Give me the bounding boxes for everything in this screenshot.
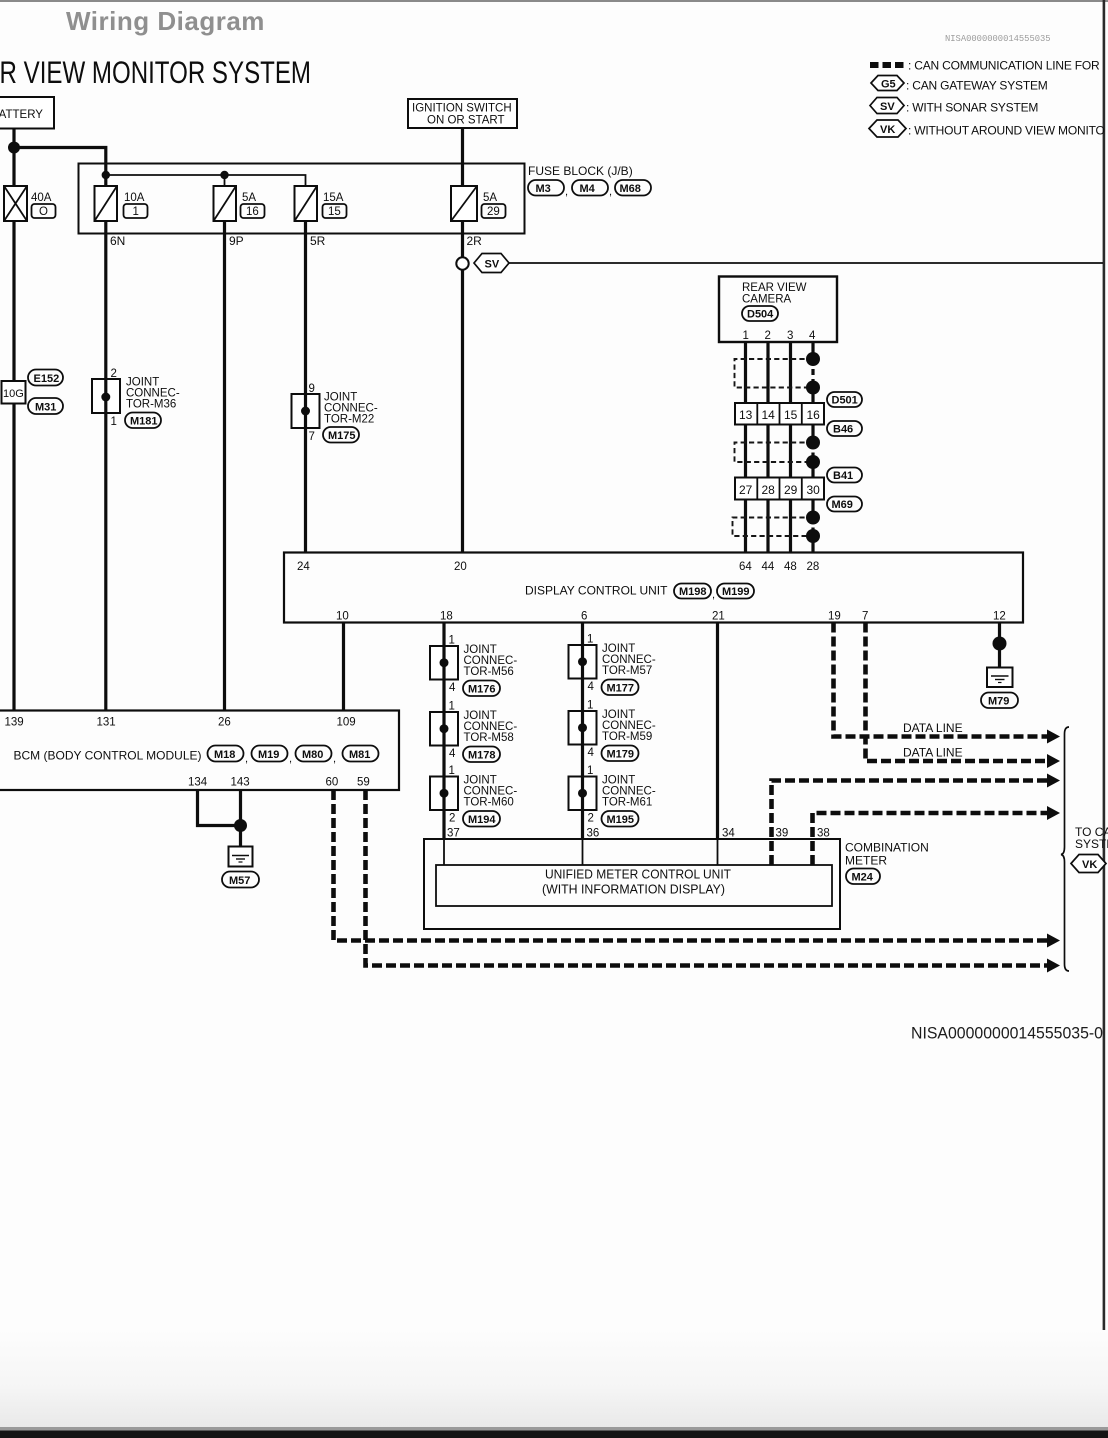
svg-text:G5: G5 (881, 79, 896, 91)
wire SV line right (509, 262, 1103, 264)
connector M18 (208, 746, 244, 762)
svg-text:1: 1 (587, 765, 593, 777)
svg-text:44: 44 (762, 561, 775, 573)
ground M57 (229, 847, 253, 867)
svg-text:B46: B46 (833, 424, 853, 436)
fuse 5A 29 (451, 186, 506, 221)
connector D501 (827, 392, 862, 407)
connector B46 (827, 421, 862, 436)
svg-text:TOR-M61: TOR-M61 (602, 797, 652, 809)
ground M79 (987, 668, 1013, 688)
svg-text:TOR-M56: TOR-M56 (464, 666, 514, 678)
svg-text:4: 4 (809, 330, 816, 342)
wire camera pin2 (766, 342, 769, 553)
wire BCM143 to ground (239, 790, 242, 847)
node shield1 top dot (806, 352, 820, 366)
svg-text:M31: M31 (35, 402, 56, 414)
svg-text:M179: M179 (607, 749, 635, 761)
bottom gray line (0, 1427, 1108, 1431)
shield box 1 (735, 359, 814, 388)
connector M19 (252, 746, 288, 762)
svg-text:36: 36 (587, 828, 600, 840)
svg-text:1: 1 (133, 206, 139, 218)
svg-text:M81: M81 (349, 749, 370, 761)
joint connector M56 (430, 646, 458, 680)
wire fuse29 down to splice (461, 221, 464, 258)
svg-text:29: 29 (487, 206, 500, 218)
svg-text:10G: 10G (3, 388, 24, 400)
node dot 134/143 junction (234, 819, 247, 832)
svg-text:M194: M194 (468, 814, 496, 826)
svg-text:143: 143 (231, 777, 250, 789)
svg-text:12: 12 (993, 611, 1006, 623)
bottom black band (0, 1431, 1108, 1438)
svg-text:D501: D501 (832, 395, 858, 407)
connector M24 (846, 869, 880, 885)
svg-text:3: 3 (787, 330, 793, 342)
connector M176 (463, 681, 500, 697)
svg-text:REAR VIEW: REAR VIEW (742, 282, 807, 294)
svg-text:M3: M3 (536, 183, 551, 195)
svg-text:7: 7 (309, 431, 315, 443)
svg-text:29: 29 (784, 483, 798, 497)
node shield2 top dot (806, 436, 820, 450)
connector M195 (602, 811, 639, 827)
svg-text:2: 2 (111, 368, 117, 380)
connector M198 (674, 584, 711, 599)
svg-text:9: 9 (309, 383, 315, 395)
wire meter 36 stub (582, 840, 584, 865)
connector M57 (222, 872, 259, 888)
fuse 10A 1 (95, 186, 148, 221)
svg-text:IGNITION SWITCH: IGNITION SWITCH (412, 103, 512, 115)
svg-text:M79: M79 (988, 696, 1009, 708)
svg-text:D504: D504 (747, 309, 774, 321)
svg-text:1: 1 (449, 701, 455, 713)
svg-text:M199: M199 (722, 586, 750, 598)
svg-text:M176: M176 (468, 684, 496, 696)
joint connector M57 (569, 645, 597, 679)
svg-text:METER: METER (845, 854, 887, 868)
svg-text:134: 134 (188, 777, 208, 789)
svg-text:18: 18 (440, 611, 453, 623)
connector M31 (28, 398, 63, 414)
wire DCU6 chain (581, 623, 584, 646)
svg-text:39: 39 (776, 828, 789, 840)
svg-text:7: 7 (862, 611, 868, 623)
connector 10G (2, 381, 26, 404)
svg-text:37: 37 (447, 828, 460, 840)
svg-text:M24: M24 (852, 872, 874, 884)
svg-text:34: 34 (722, 828, 735, 840)
connector B41 (827, 468, 862, 483)
svg-text:VK: VK (1082, 859, 1097, 871)
wire fuse bus (106, 175, 306, 186)
svg-text:SV: SV (485, 259, 500, 271)
svg-text:: CAN COMMUNICATION LINE FOR: : CAN COMMUNICATION LINE FOR (908, 59, 1100, 73)
svg-text:14: 14 (762, 408, 776, 422)
svg-text:FUSE BLOCK (J/B): FUSE BLOCK (J/B) (528, 164, 633, 178)
svg-text:SYSTEM: SYSTEM (1075, 837, 1108, 851)
connector M175 (323, 427, 359, 443)
svg-text:15A: 15A (323, 192, 344, 204)
svg-text:131: 131 (97, 717, 116, 729)
joint connector M58 (430, 712, 458, 746)
svg-text:10: 10 (336, 611, 349, 623)
svg-text:4: 4 (588, 747, 595, 759)
wire DCU18 chain (442, 623, 445, 647)
node shield3 top dot (806, 511, 820, 525)
joint connector M61 (569, 777, 597, 811)
ignition switch box (408, 99, 517, 128)
legend hexagon G5 (871, 76, 904, 91)
wire ignition down (461, 128, 464, 186)
svg-text:16: 16 (807, 408, 821, 422)
wire fuse16 to BCM 26 (223, 221, 226, 711)
svg-text:,: , (289, 753, 292, 765)
connector row 13-16 (735, 403, 824, 425)
svg-text:,: , (245, 753, 248, 765)
svg-text:: CAN GATEWAY SYSTEM: : CAN GATEWAY SYSTEM (906, 79, 1048, 93)
svg-text:M69: M69 (832, 499, 853, 511)
wire fuse15 to M22 (304, 221, 307, 394)
svg-text:19: 19 (828, 611, 841, 623)
svg-text:REAR VIEW MONITOR SYSTEM: REAR VIEW MONITOR SYSTEM (0, 54, 311, 90)
CAN wire meter 38 (813, 813, 1048, 865)
joint connector M36 (92, 379, 120, 413)
svg-text:6N: 6N (110, 234, 125, 248)
svg-text:NISA0000000014555035: NISA0000000014555035 (945, 34, 1051, 44)
svg-text:5R: 5R (310, 234, 326, 248)
svg-text:21: 21 (712, 611, 725, 623)
BCM box U2 (0, 711, 399, 791)
wire DCU21 to meter 34 (716, 623, 719, 841)
svg-text:2R: 2R (467, 234, 483, 248)
fusible link 40A O (4, 186, 56, 221)
svg-text:28: 28 (807, 561, 820, 573)
svg-text:1: 1 (587, 634, 593, 646)
CAN wire DCU19 data line (834, 623, 1048, 737)
CAN wire BCM60 (334, 790, 1048, 941)
svg-text:TOR-M58: TOR-M58 (464, 732, 514, 744)
svg-text:M4: M4 (580, 183, 596, 195)
svg-text:,: , (333, 753, 336, 765)
rear view camera box (719, 277, 837, 343)
svg-text:TOR-M22: TOR-M22 (324, 414, 374, 426)
svg-text:BCM (BODY CONTROL MODULE): BCM (BODY CONTROL MODULE) (14, 749, 202, 763)
svg-text:5A: 5A (483, 192, 497, 204)
node shield2 bottom dot (806, 455, 820, 469)
wire DCU10 to BCM109 (342, 623, 345, 712)
wire meter 37 stub (443, 840, 445, 865)
fuse 5A 16 (214, 186, 265, 221)
svg-text:2: 2 (765, 330, 771, 342)
connector M68 (615, 180, 651, 196)
wire M22 to DCU 24 (304, 428, 307, 553)
connector M178 (463, 747, 500, 763)
node battery junction (8, 142, 20, 154)
svg-text:2: 2 (588, 813, 594, 825)
svg-text:O: O (39, 206, 48, 218)
svg-text:64: 64 (739, 561, 752, 573)
svg-text:109: 109 (337, 717, 356, 729)
legend hexagon SV (870, 98, 904, 114)
joint connector M22 (292, 394, 320, 428)
battery B1 (0, 97, 54, 129)
svg-text:M198: M198 (679, 586, 707, 598)
shield box 2 (735, 443, 814, 463)
connector row 27-30 (735, 478, 824, 500)
svg-text:1: 1 (449, 635, 455, 647)
svg-text:M178: M178 (468, 750, 496, 762)
page right border line (1103, 0, 1106, 1438)
svg-text:TOR-M60: TOR-M60 (464, 797, 514, 809)
svg-text:M18: M18 (214, 749, 235, 761)
svg-text:15: 15 (328, 206, 341, 218)
svg-text:M68: M68 (620, 183, 641, 195)
svg-text:,: , (565, 186, 568, 198)
CAN wire meter 39 (772, 781, 1048, 866)
svg-text:10A: 10A (124, 192, 145, 204)
svg-text:Wiring Diagram: Wiring Diagram (66, 6, 265, 36)
svg-text:28: 28 (762, 483, 776, 497)
wire fuse1 to M36 (104, 221, 107, 379)
svg-text:: WITH SONAR SYSTEM: : WITH SONAR SYSTEM (906, 101, 1038, 115)
svg-text:60: 60 (326, 777, 339, 789)
svg-text:E152: E152 (34, 373, 60, 385)
svg-text:4: 4 (588, 681, 595, 693)
svg-text:SV: SV (880, 101, 895, 113)
svg-text:5A: 5A (242, 192, 256, 204)
wire battery branch to fuse 1 (14, 148, 106, 187)
connector M81 (343, 746, 379, 762)
connector M199 (717, 584, 754, 599)
joint connector M60 (430, 777, 458, 811)
svg-text:4: 4 (449, 682, 456, 694)
svg-text:M57: M57 (229, 875, 250, 887)
connector M181 (125, 413, 161, 429)
svg-text:24: 24 (297, 561, 310, 573)
wire camera pin3 (789, 342, 792, 553)
svg-text:6: 6 (581, 611, 587, 623)
svg-text:DATA LINE: DATA LINE (903, 721, 963, 735)
svg-text:1: 1 (743, 330, 749, 342)
svg-text:CAMERA: CAMERA (742, 294, 792, 306)
svg-text:1: 1 (587, 700, 593, 712)
connector M177 (602, 680, 639, 696)
svg-text:(WITH INFORMATION DISPLAY): (WITH INFORMATION DISPLAY) (542, 882, 725, 897)
node bus dot fuse16 (220, 171, 228, 179)
legend hexagon VK (869, 120, 906, 137)
hexagon VK tag (1071, 855, 1106, 873)
svg-text:M80: M80 (302, 749, 323, 761)
wire 10G to BCM 139 (12, 404, 15, 712)
svg-text:139: 139 (5, 717, 24, 729)
svg-text:26: 26 (218, 717, 231, 729)
svg-text:16: 16 (246, 206, 259, 218)
svg-text:38: 38 (817, 828, 830, 840)
svg-text:1: 1 (111, 416, 117, 428)
svg-text:UNIFIED METER CONTROL UNIT: UNIFIED METER CONTROL UNIT (545, 867, 731, 882)
svg-text:9P: 9P (229, 234, 244, 248)
svg-text:BATTERY: BATTERY (0, 109, 43, 121)
combination meter box (424, 839, 840, 929)
connector M4 (572, 180, 608, 196)
display control unit box U1 (284, 553, 1023, 623)
svg-text:40A: 40A (31, 192, 52, 204)
svg-text:B41: B41 (833, 470, 853, 482)
CAN wire BCM59 (366, 790, 1048, 966)
svg-text:M19: M19 (258, 749, 279, 761)
joint connector M59 (569, 711, 597, 745)
svg-text:TOR-M59: TOR-M59 (602, 731, 652, 743)
svg-text:2: 2 (449, 813, 455, 825)
svg-text:VK: VK (880, 124, 895, 136)
svg-text:4: 4 (449, 748, 456, 760)
node dot pin12 (993, 637, 1007, 651)
wire M36 to BCM 131 (104, 413, 107, 711)
svg-text:M175: M175 (328, 430, 356, 442)
svg-text:M195: M195 (607, 814, 635, 826)
svg-text:27: 27 (739, 483, 753, 497)
wire splice to DCU 20 (461, 270, 464, 553)
brace to CAN system (1061, 727, 1069, 971)
connector M79 (981, 693, 1018, 709)
page top gray line (0, 0, 1108, 2)
node bus dot fuse1 (102, 171, 110, 179)
svg-text:NISA0000000014555035-0: NISA0000000014555035-0 (911, 1024, 1103, 1043)
node shield3 bottom dot (806, 529, 820, 543)
hexagon SV tag (474, 254, 509, 273)
svg-text:,: , (609, 186, 612, 198)
svg-text:DATA LINE: DATA LINE (903, 746, 963, 760)
svg-text:59: 59 (357, 777, 370, 789)
svg-text:15: 15 (784, 408, 798, 422)
connector M69 (827, 497, 862, 512)
connector E152 (28, 370, 63, 386)
svg-text:COMBINATION: COMBINATION (845, 841, 929, 855)
svg-text:M181: M181 (130, 416, 158, 428)
wire BCM134 (198, 790, 241, 826)
shield box 3 (733, 518, 814, 537)
fuse block (J/B) box (79, 164, 525, 234)
fuse 15A 15 (295, 186, 347, 221)
svg-text:DISPLAY CONTROL UNIT: DISPLAY CONTROL UNIT (525, 584, 668, 598)
svg-text:30: 30 (807, 483, 821, 497)
connector M3 (528, 180, 564, 196)
svg-text:20: 20 (454, 561, 467, 573)
svg-text:ON OR START: ON OR START (427, 115, 505, 127)
node splice circle SV (456, 257, 468, 269)
svg-text:48: 48 (784, 561, 797, 573)
svg-text:M177: M177 (607, 683, 635, 695)
connector M179 (602, 746, 639, 762)
svg-text:1: 1 (449, 765, 455, 777)
svg-text:TOR-M57: TOR-M57 (602, 665, 652, 677)
connector M194 (463, 811, 500, 827)
svg-text:TOR-M36: TOR-M36 (126, 399, 176, 411)
unified meter control unit box (436, 865, 832, 906)
connector M80 (296, 746, 332, 762)
wire camera pin1 (744, 342, 747, 553)
svg-text:,: , (712, 589, 715, 601)
svg-text:13: 13 (739, 408, 753, 422)
node shield1 bottom dot (806, 381, 820, 395)
svg-text:: WITHOUT AROUND VIEW MONITO: : WITHOUT AROUND VIEW MONITO (908, 124, 1105, 138)
CAN wire DCU7 data line (866, 623, 1048, 762)
legend CAN line swatch (870, 62, 906, 68)
wire meter 34 stub (717, 840, 719, 865)
wire DCU12 to ground (998, 623, 1001, 669)
wire battery down (12, 129, 15, 187)
wire 40A to 10G (12, 221, 15, 381)
connector D504 (742, 306, 778, 321)
wire camera pin4 shield drain (811, 342, 814, 359)
